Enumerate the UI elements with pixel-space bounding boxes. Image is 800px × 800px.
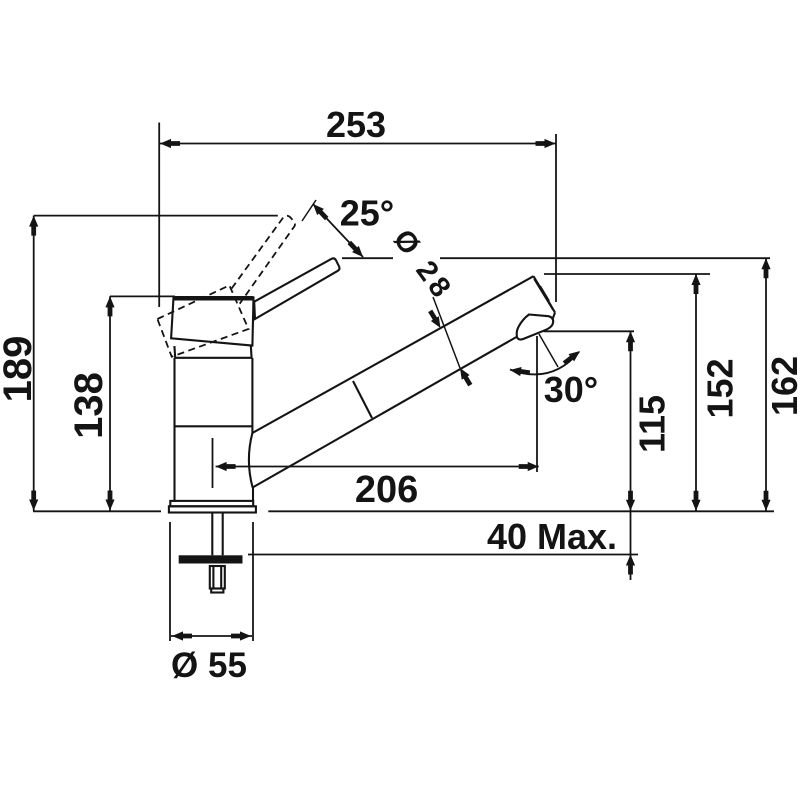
body right edge upper bbox=[251, 358, 253, 433]
dim O55 ext right bbox=[252, 522, 254, 641]
dim 189 line bbox=[33, 216, 35, 511]
O28 arrows bbox=[426, 308, 444, 330]
mounting plate (filled) bbox=[179, 555, 243, 563]
dim 25deg leader line bbox=[313, 204, 363, 257]
body left edge bbox=[173, 358, 175, 501]
svg-text:30°: 30° bbox=[544, 369, 598, 410]
30deg arc bbox=[510, 352, 579, 374]
dim O55 line bbox=[171, 635, 252, 637]
dim 162 ext top (also 25deg reference) bbox=[342, 257, 393, 259]
40max bottom arrow bbox=[626, 555, 635, 575]
svg-text:Ø 55: Ø 55 bbox=[171, 646, 247, 685]
dim 206 line bbox=[216, 466, 539, 468]
svg-text:162: 162 bbox=[764, 356, 800, 416]
115 arrows bbox=[626, 331, 635, 351]
dim 138 ext top bbox=[110, 295, 175, 297]
collar below head bbox=[174, 346, 251, 358]
countertop line right bbox=[268, 510, 774, 512]
dim 115 / 40max vertical line bbox=[630, 331, 632, 580]
30deg axis line bbox=[539, 334, 558, 367]
spout tip corner to aerator bbox=[553, 313, 555, 319]
svg-text:Ø 28: Ø 28 bbox=[387, 224, 459, 307]
138 arrows bbox=[105, 296, 114, 316]
lever handle (solid position) bbox=[254, 258, 339, 319]
253 arrows bbox=[160, 139, 180, 148]
dim 152 ext top bbox=[544, 273, 710, 275]
svg-text:189: 189 bbox=[0, 336, 40, 403]
30deg arc arrows bbox=[561, 347, 582, 367]
spout end face bbox=[534, 276, 556, 312]
25deg arrows bbox=[310, 201, 330, 222]
dim 253 ext right bbox=[555, 134, 557, 302]
spout end face shading lines bbox=[537, 282, 552, 307]
dim 253 ext left bbox=[158, 123, 160, 308]
flange top band bbox=[170, 501, 253, 506]
dim 206 center tick bbox=[212, 438, 214, 488]
mounting nut bbox=[210, 566, 225, 589]
svg-text:115: 115 bbox=[632, 395, 673, 453]
dashed rotated head outline bbox=[157, 216, 295, 357]
dashed lever axis extension bbox=[302, 200, 316, 221]
152 arrows bbox=[691, 274, 700, 294]
dim 40max ext bottom bbox=[248, 554, 638, 556]
206 arrows bbox=[216, 462, 236, 471]
svg-text:40 Max.: 40 Max. bbox=[487, 516, 617, 557]
spout transverse joint bbox=[353, 381, 372, 418]
dim 152 line bbox=[695, 274, 697, 511]
svg-text:152: 152 bbox=[700, 358, 741, 418]
dashed rotated lever bbox=[232, 216, 295, 304]
dim 162 line bbox=[765, 258, 767, 510]
dim O55 ext left bbox=[169, 522, 171, 641]
dim 253 line bbox=[160, 143, 556, 145]
svg-text:25°: 25° bbox=[340, 193, 394, 234]
dim 115 ext top bbox=[544, 330, 634, 332]
svg-text:206: 206 bbox=[355, 469, 418, 511]
body right edge lower bbox=[252, 488, 254, 501]
dim O28 line through spout bbox=[433, 297, 460, 368]
spout top edge bbox=[252, 276, 533, 433]
aerator blob under spout tip bbox=[517, 315, 554, 340]
O55 arrows bbox=[172, 631, 192, 640]
162 arrows bbox=[761, 258, 770, 278]
spout elbow curve bbox=[249, 433, 253, 488]
svg-text:138: 138 bbox=[67, 372, 111, 439]
189 arrows bbox=[29, 216, 38, 236]
dim 138 line bbox=[109, 296, 111, 510]
flange main band bbox=[169, 506, 256, 512]
countertop line left bbox=[33, 510, 161, 512]
spout bottom edge bbox=[253, 337, 518, 488]
head cap top thick bar bbox=[174, 296, 254, 301]
threaded shank bbox=[211, 513, 213, 556]
dim 206 ext right (from aerator down) bbox=[536, 336, 538, 472]
dim 189 ext top bbox=[34, 215, 278, 217]
body joint line bbox=[175, 425, 253, 427]
svg-text:253: 253 bbox=[326, 104, 386, 145]
head cap outline bbox=[171, 298, 253, 346]
